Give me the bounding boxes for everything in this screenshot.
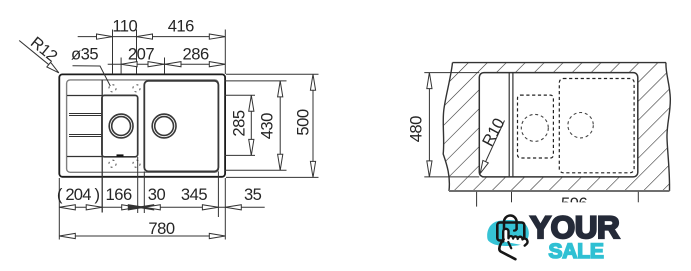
svg-text:480: 480 [407,116,426,142]
svg-text:286: 286 [183,45,209,64]
sink edge double line in cutout [508,73,510,177]
extension lines right of sink [226,73,319,75]
logo bag handle [504,216,517,230]
svg-text:166: 166 [106,185,132,204]
cutout opening R10 rounded rect [479,73,638,177]
extension lines above sink [112,30,114,75]
logo teal blob [487,220,529,246]
tap hole dashed circles (4 optional positions) [109,85,116,92]
svg-text:( 204 ): ( 204 ) [57,185,100,204]
logo hand: wrist check stroke [499,239,515,259]
dimension row 780 [59,235,225,237]
svg-text:30: 30 [148,185,166,204]
dashed small drain circle [521,114,548,141]
logo hand: thumb crease [508,242,511,248]
logo bag handle curls [514,228,517,231]
white box under logo (covers bottom of 596 dim) [484,202,691,271]
sink outer outline 780x500 [59,74,225,176]
countertop torn left edge [443,63,452,191]
extension lines below countertop [476,192,478,207]
countertop top edge [453,62,667,64]
countertop hatched area (with cutout hole) [443,63,670,191]
dashed large bowl footprint [559,79,634,173]
dimension row (204) 166 30 345 35 [59,206,264,208]
svg-text:285: 285 [229,110,248,136]
label R10 with leader arrow to cutout corner [480,121,504,174]
large bowl drain outer circle [152,114,176,138]
small bowl outline [102,95,138,156]
drainboard / deck divider line [101,80,103,213]
sink inner rim edge [67,80,219,172]
svg-text:110: 110 [112,17,137,36]
countertop torn right edge [666,63,670,191]
extension lines for 480 [424,72,479,74]
countertop bottom edge (thick) [449,190,670,192]
dimension 480 (vertical) [428,73,430,177]
svg-text:780: 780 [148,219,174,238]
drainboard bottom line [67,156,102,158]
dimension 430 (vertical) [279,81,281,170]
dimension row 207 / 286 [108,63,226,65]
dashed large drain circle [568,113,593,138]
small bowl drain outer circle [109,114,133,138]
svg-text:ø35: ø35 [71,45,98,64]
svg-text:35: 35 [244,185,262,204]
label R12 with leader arrow to corner [19,41,59,73]
dashed small bowl footprint [518,95,554,158]
dimension row 110 / 416 [78,36,226,38]
drainboard top line [67,95,102,97]
small bowl overflow notch [117,154,124,156]
large bowl outline [144,81,218,172]
drainboard rib pair 1 [69,113,102,115]
svg-text:345: 345 [181,185,207,204]
small bowl drain inner circle [112,117,131,136]
svg-text:SALE: SALE [549,240,604,263]
svg-text:207: 207 [128,45,154,64]
large bowl drain inner circle [155,117,174,136]
logo shopping bag [497,223,524,241]
drainboard rib pair 2 [69,134,102,136]
dimension 500 (vertical) [312,74,314,177]
dimension 285 (vertical) [250,95,252,155]
svg-text:430: 430 [257,113,276,139]
extension lines below sink [58,178,60,240]
svg-text:500: 500 [293,109,312,135]
logo hand: finger + knuckles [503,229,527,246]
svg-text:416: 416 [168,17,194,36]
